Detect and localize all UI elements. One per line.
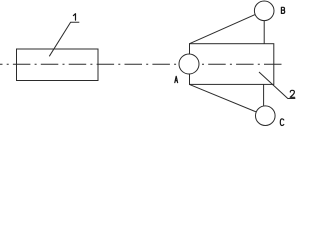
node B [281,7,284,13]
locator circle C [255,106,275,126]
wire A to B [190,15,256,44]
locator circle A [179,54,199,74]
fixture body rectangle 2 [190,44,274,85]
label 2 [290,90,295,97]
centerline (dash-dot axis) [0,63,283,65]
node C [280,119,284,126]
wire C to body [263,84,265,106]
locator circle B [254,1,274,21]
label 1 [73,14,75,20]
workpiece rectangle 1 [17,49,99,81]
wire B to body [263,21,265,44]
leader line 2 [259,72,295,99]
leader line 1 [49,22,79,56]
node A [175,76,178,82]
wire A to C [189,84,256,112]
